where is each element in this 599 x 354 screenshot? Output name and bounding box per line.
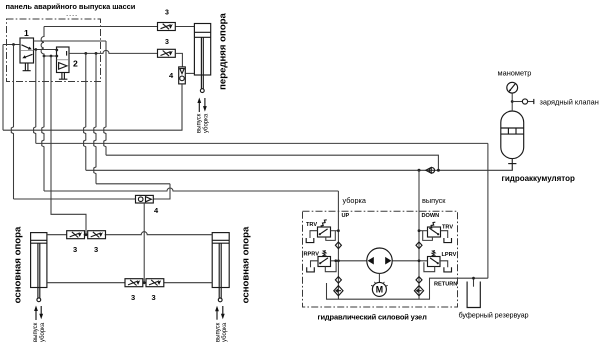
svg-text:M: M — [376, 285, 383, 295]
wire H1: emergency down bus — [3, 84, 182, 130]
hydraulic pump — [367, 248, 392, 273]
front gear retract arrow — [203, 98, 207, 112]
junction buffer pipe — [472, 277, 475, 280]
junction DOWN line on pump right — [418, 259, 421, 262]
pressure relief valve RPRV (left) — [311, 250, 337, 272]
valve 1 body — [20, 38, 34, 63]
svg-text:выпуск: выпуск — [215, 322, 221, 342]
wire: lower valve3 to restrictor 4 — [175, 53, 182, 67]
wire: restrictor 4b riser to main lower line — [143, 203, 145, 283]
svg-text:уборка: уборка — [40, 322, 46, 342]
thermal relief valve TRV (left) — [310, 220, 338, 241]
wire Va: valve1 left line down to H1 — [2, 45, 4, 131]
valve 2 body — [57, 47, 70, 73]
junction Vd end — [43, 55, 46, 58]
svg-text:1: 1 — [24, 28, 29, 38]
flow control valve 3 (left main up) — [67, 231, 85, 239]
svg-text:манометр: манометр — [498, 69, 532, 78]
pump to motor shaft — [378, 273, 380, 282]
wire Vh: valve1 top port down to H2b — [104, 41, 106, 155]
wire H2b: emergency link to extend bus — [106, 155, 438, 170]
svg-text:панель аварийного выпуска шасс: панель аварийного выпуска шасси — [6, 2, 136, 11]
wire: return collector and RETURN port — [327, 278, 488, 299]
front cylinder rod — [200, 37, 204, 92]
check diamond with arrow on UP line — [334, 286, 343, 296]
accumulator bottom fitting — [508, 159, 516, 171]
wire: valve1 right mid port to valve2 left top port — [34, 49, 57, 51]
junction выпуск drop on H3 — [418, 169, 421, 172]
valve 1 upper arrow — [22, 45, 32, 50]
right main cylinder rod — [218, 243, 222, 302]
wire: top line to flow valve 3 and front cylinder — [44, 26, 194, 28]
main gear left cylinder — [31, 233, 47, 288]
restrictor check valve 4 (main gear) — [136, 195, 154, 203]
svg-text:зарядный клапан: зарядный клапан — [540, 98, 599, 107]
wire H6: to restrictor 4b — [14, 184, 171, 199]
svg-text:TRV: TRV — [442, 225, 453, 231]
wire: uborka UP line down through unit — [337, 191, 339, 299]
flow control valve 3 (left main down) — [125, 279, 143, 287]
filter diamond on DOWN line — [416, 277, 422, 284]
svg-text:3: 3 — [73, 245, 77, 254]
svg-text:LPRV: LPRV — [442, 252, 457, 258]
valve 1 lower arrow — [22, 54, 32, 58]
main gear right cylinder — [212, 233, 229, 288]
junction retract riser on top line — [85, 233, 88, 236]
wire: accumulator return drop — [487, 143, 489, 278]
svg-text:гидроаккумулятор: гидроаккумулятор — [502, 174, 576, 183]
front gear cylinder — [194, 24, 210, 76]
left main cylinder rod — [37, 243, 41, 301]
pressure gauge — [507, 82, 518, 93]
svg-text:TRV: TRV — [306, 222, 317, 228]
svg-text:3: 3 — [165, 10, 169, 17]
svg-text:выпуск: выпуск — [196, 113, 202, 133]
orifice diamond on UP line — [335, 242, 341, 249]
svg-text:буферный резервуар: буферный резервуар — [459, 311, 529, 320]
LPRV tank — [444, 267, 452, 272]
wire H4: link to restrictor 4b riser — [96, 183, 170, 185]
charging valve — [512, 99, 534, 104]
wire Vd: hose with wavy jogs from top line to valve2 lower line — [41, 27, 44, 57]
svg-text:UP: UP — [342, 213, 350, 219]
thermal relief valve TRV (right) — [419, 222, 448, 240]
flow control valve 3 (front gear up line) — [158, 23, 176, 31]
hydraulic accumulator shell — [501, 111, 524, 159]
wire Ve: retract branch to main gear up line — [51, 56, 86, 235]
wire: valve1 right top port to corner — [34, 40, 107, 42]
front gear extend arrow — [197, 98, 201, 113]
junction Vc tap — [34, 48, 37, 51]
svg-text:уборка: уборка — [204, 113, 210, 133]
wire Vb: valve1 left line down to H6 — [11, 45, 13, 200]
valve 1 manual actuator — [23, 63, 31, 71]
wire: main gear extend lower line — [47, 282, 212, 284]
junction charge branch — [511, 100, 514, 103]
wire: valve2 right port line to lower flow valve 3 — [69, 50, 158, 53]
junction valve2 left lower port — [55, 55, 58, 58]
junction TRV left on UP line — [337, 229, 340, 232]
filter diamond on UP line — [335, 277, 341, 284]
wire: accumulator top stem — [511, 93, 513, 111]
wire: main gear retract top line — [47, 232, 212, 235]
right main gear retract arrow — [221, 306, 225, 319]
power unit dash-dot border — [303, 211, 458, 307]
pressure relief valve LPRV (right) — [424, 250, 448, 272]
wire Vg: extend branch down to H4 — [94, 53, 96, 183]
wire Vc: valve1 mid port down to H2 — [34, 50, 36, 144]
svg-text:уборка: уборка — [343, 196, 367, 205]
svg-text:основная опора: основная опора — [241, 226, 252, 303]
wire H5: retract bus to power unit UP — [44, 188, 338, 191]
svg-text:передняя опора: передняя опора — [218, 12, 229, 89]
valve 2 blocked port tick — [66, 51, 68, 56]
junction Ve tap — [50, 55, 53, 58]
junction valve2 left top port — [55, 49, 58, 52]
inline check symbol on H3 — [426, 167, 435, 173]
junction UP line on pump left — [337, 259, 340, 262]
TRV right tank — [444, 238, 452, 243]
restrictor check valve 4 (front) — [179, 67, 186, 84]
junction TRV right on DOWN line — [418, 229, 421, 232]
flow control valve 3 (right main up) — [88, 231, 106, 239]
svg-text:DOWN: DOWN — [422, 213, 440, 219]
junction extend riser on lower line — [143, 281, 146, 284]
orifice diamond on DOWN line — [416, 242, 422, 249]
wire: valve2 left lower port line — [44, 55, 57, 57]
valve 2 check triangle — [59, 63, 67, 70]
wire: pump suction left — [331, 260, 367, 262]
svg-text:RETURN: RETURN — [434, 282, 457, 288]
wire: valve1 left port line — [3, 44, 20, 46]
svg-text:3: 3 — [131, 293, 135, 302]
wire: valve4 to front cylinder lower port — [185, 72, 194, 74]
electric motor M — [371, 281, 387, 297]
svg-text:3: 3 — [152, 293, 156, 302]
right main gear extend arrow — [215, 306, 219, 320]
junction Vf tap — [84, 52, 87, 55]
flow control valve 3 (right main down) — [146, 279, 164, 287]
junction H2b joins H3 — [437, 169, 440, 172]
svg-text:уборка: уборка — [222, 322, 228, 342]
flow control valve 3 (front gear down line) — [158, 49, 176, 57]
svg-text:гидравлический силовой узел: гидравлический силовой узел — [318, 313, 428, 322]
junction on valve1 left line — [12, 43, 15, 46]
svg-text:3: 3 — [94, 245, 98, 254]
left main gear retract arrow — [39, 306, 43, 319]
left main gear extend arrow — [34, 306, 38, 321]
wire: valve4 bottom riser to H1 — [181, 84, 183, 130]
wire Vf: extend branch down to H3 — [84, 53, 86, 170]
buffer reservoir pipe — [473, 278, 475, 287]
svg-text:2: 2 — [73, 59, 78, 69]
valve 2 manual actuator — [59, 73, 68, 80]
wire: pump pressure right — [392, 260, 427, 262]
svg-text:выпуск: выпуск — [33, 322, 39, 342]
junction RPRV loop — [334, 259, 337, 262]
svg-text:RPRV: RPRV — [304, 252, 320, 258]
wire H3: extend bus to accumulator — [86, 158, 513, 170]
buffer reservoir tank — [467, 282, 480, 308]
RPRV tank — [307, 267, 315, 272]
emergency panel dash-dot border — [7, 19, 101, 82]
svg-text:3: 3 — [165, 39, 169, 46]
svg-text:основная опора: основная опора — [13, 226, 24, 303]
wire H2: return bus to accumulator drop — [36, 142, 488, 144]
junction Vg tap — [95, 52, 98, 55]
wire Vd: retract hose down to H5 — [42, 56, 44, 191]
faint dotted remnant under title — [67, 14, 78, 16]
check diamond with arrow on DOWN line — [414, 286, 423, 296]
svg-text:выпуск: выпуск — [422, 196, 446, 205]
TRV left tank — [306, 238, 314, 243]
wire: vypusk DOWN line down through unit — [418, 170, 420, 299]
